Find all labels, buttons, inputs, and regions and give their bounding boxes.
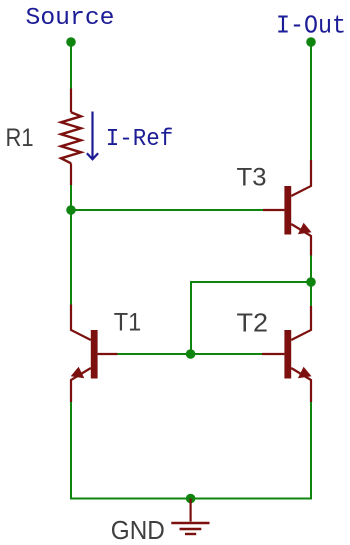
svg-text:T2: T2 — [237, 307, 269, 337]
svg-text:GND: GND — [111, 515, 165, 545]
svg-text:I-Out: I-Out — [276, 10, 346, 40]
svg-text:T3: T3 — [237, 164, 267, 192]
svg-text:Source: Source — [26, 5, 115, 32]
svg-text:I-Ref: I-Ref — [106, 126, 174, 153]
svg-text:R1: R1 — [6, 124, 34, 152]
svg-text:T1: T1 — [114, 308, 142, 336]
